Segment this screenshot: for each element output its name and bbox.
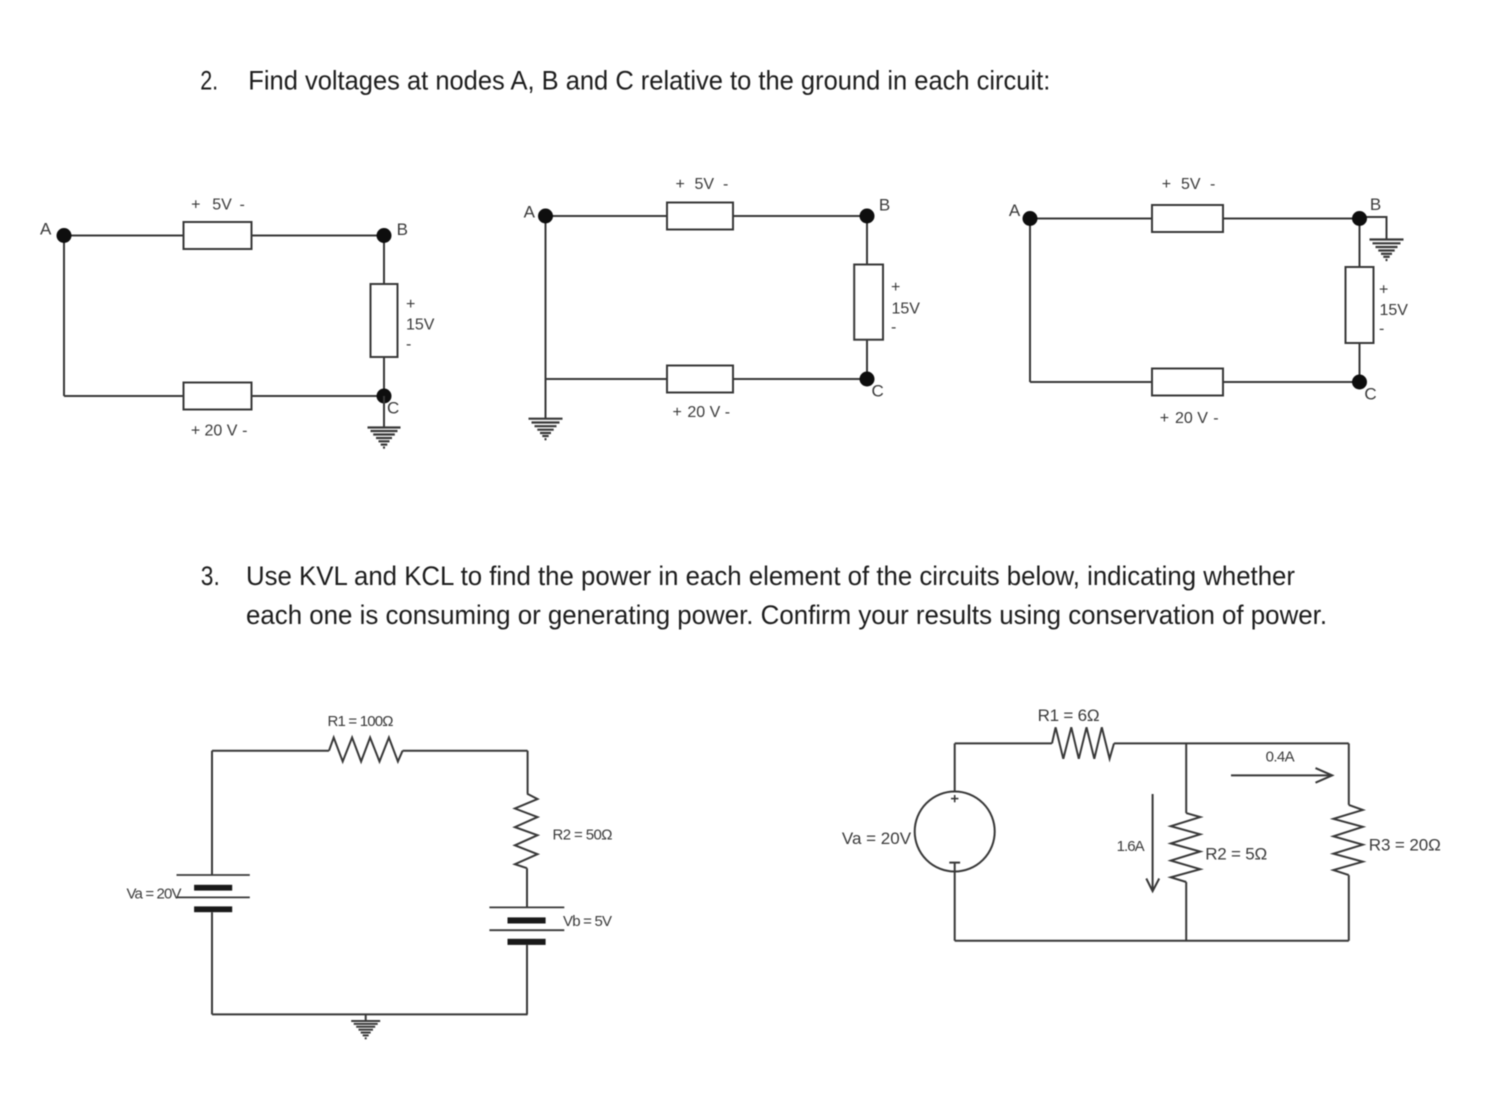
node B (circuit 3): [1352, 195, 1381, 226]
svg-text:-: -: [1210, 176, 1215, 193]
wire left lower (circuit 4): [211, 912, 213, 1014]
problem 2 heading: [200, 65, 1050, 95]
node B (circuit 1): [377, 220, 408, 243]
node A (circuit 1): [40, 220, 72, 244]
svg-text:+: +: [676, 176, 685, 193]
svg-text:R2 = 50Ω: R2 = 50Ω: [553, 827, 613, 844]
svg-text:15V: 15V: [892, 301, 921, 318]
svg-text:Find voltages at nodes A, B an: Find voltages at nodes A, B and C relati…: [248, 65, 1050, 95]
svg-text:15V: 15V: [1380, 302, 1409, 319]
svg-text:A: A: [524, 202, 536, 221]
svg-text:A: A: [1009, 201, 1021, 220]
label + 20 V - (circuit 3): [1160, 410, 1219, 427]
svg-text:+: +: [191, 197, 200, 214]
svg-text:20 V: 20 V: [1175, 410, 1208, 427]
label + 5V - (circuit 3): [1162, 176, 1216, 193]
svg-text:+: +: [1160, 410, 1169, 427]
wire right branch upper (circuit 5): [1348, 743, 1350, 805]
node C (circuit 2): [860, 372, 884, 401]
wire A down left side (circuit 3): [1029, 219, 1031, 383]
element box 15V (circuit 1): [371, 284, 398, 357]
svg-text:Va = 20V: Va = 20V: [127, 886, 182, 903]
svg-text:R1 = 100Ω: R1 = 100Ω: [328, 713, 394, 730]
svg-text:+: +: [891, 279, 900, 296]
svg-text:20 V: 20 V: [687, 404, 720, 421]
resistor R1 (circuit 4): [329, 738, 403, 762]
wire source top (circuit 5): [954, 743, 956, 791]
element box 15V (circuit 2): [854, 265, 883, 340]
element box 20V (circuit 3): [1152, 369, 1223, 396]
svg-text:2.: 2.: [200, 65, 218, 95]
resistor R3 (circuit 5): [1333, 805, 1362, 875]
element box 20V (circuit 1): [184, 383, 252, 410]
svg-text:-: -: [891, 319, 896, 336]
svg-text:5V: 5V: [1181, 176, 1201, 193]
ground (circuit 1): [368, 428, 401, 448]
svg-text:C: C: [872, 381, 884, 400]
svg-text:B: B: [1370, 195, 1381, 214]
svg-text:B: B: [397, 220, 408, 239]
wire B to 15V element (circuit 3): [1359, 219, 1361, 268]
node A (circuit 2): [524, 202, 553, 223]
element box 5V (circuit 1): [184, 222, 252, 249]
ground (circuit 4): [351, 1014, 380, 1038]
element box 5V (circuit 3): [1152, 205, 1223, 232]
label Va = 20V (circuit 4): [127, 886, 182, 903]
resistor R1 (circuit 5): [1052, 727, 1114, 759]
wire top right (circuit 5): [1114, 742, 1349, 744]
wire 15V element to C (circuit 1): [383, 357, 385, 396]
label 1.6A (circuit 5): [1117, 838, 1145, 855]
svg-text:-: -: [406, 336, 411, 353]
wire middle branch upper (circuit 5): [1185, 743, 1187, 813]
wire bottom (circuit 1): [64, 395, 384, 397]
battery Vb (circuit 4): [489, 907, 564, 944]
wire right lower (circuit 4): [526, 945, 528, 1015]
node B (circuit 2): [860, 195, 891, 223]
svg-text:1.6A: 1.6A: [1117, 838, 1145, 855]
wire top left (circuit 4): [212, 750, 329, 752]
label Va = 20V (circuit 5): [842, 829, 912, 848]
label + 5V - (circuit 2): [676, 176, 729, 193]
wire top left (circuit 5): [955, 742, 1052, 744]
current arrow 1.6A (circuit 5): [1146, 794, 1159, 891]
svg-text:5V: 5V: [695, 176, 715, 193]
wire bottom (circuit 2): [546, 378, 868, 380]
svg-text:+: +: [1379, 282, 1388, 299]
label + 5V - (circuit 1): [191, 197, 245, 214]
svg-text:R2 = 5Ω: R2 = 5Ω: [1205, 845, 1267, 864]
svg-text:-: -: [725, 404, 730, 421]
wire 15V element to C (circuit 2): [866, 339, 868, 379]
element box 5V (circuit 2): [667, 203, 733, 230]
svg-text:+: +: [406, 296, 415, 313]
voltage source Va (circuit 5): [915, 792, 995, 872]
svg-text:20 V: 20 V: [205, 423, 238, 440]
svg-text:+: +: [191, 423, 200, 440]
label R2 = 5 ohm (circuit 5): [1205, 845, 1267, 864]
label 15V polarity (circuit 2): [891, 279, 920, 336]
svg-text:0.4A: 0.4A: [1266, 748, 1295, 765]
svg-text:Va = 20V: Va = 20V: [842, 829, 912, 848]
label 0.4A (circuit 5): [1266, 748, 1295, 765]
label + 20 V - (circuit 1): [191, 423, 248, 440]
ground (circuit 2): [529, 419, 563, 440]
wire A-B top (circuit 3): [1030, 218, 1360, 220]
wire A-B top (circuit 1): [64, 235, 384, 237]
wire right upper (circuit 4): [527, 751, 529, 794]
element box 20V (circuit 2): [667, 366, 733, 393]
problem 3 heading: [201, 561, 1327, 630]
wire top right (circuit 4): [403, 750, 528, 752]
svg-text:Use KVL and KCL to find the po: Use KVL and KCL to find the power in eac…: [246, 561, 1295, 591]
svg-text:-: -: [240, 197, 245, 214]
ground (circuit 3): [1370, 240, 1404, 261]
label + 20 V - (circuit 2): [673, 404, 731, 421]
element box 15V (circuit 3): [1346, 267, 1374, 343]
svg-text:Vb = 5V: Vb = 5V: [563, 913, 612, 930]
wire A down left side (circuit 1): [63, 236, 65, 397]
wire B to 15V element (circuit 1): [383, 236, 385, 285]
svg-text:C: C: [1364, 384, 1376, 403]
svg-text:R3 = 20Ω: R3 = 20Ω: [1369, 835, 1441, 854]
svg-text:C: C: [387, 399, 399, 418]
svg-text:-: -: [242, 423, 247, 440]
wire A-B top (circuit 2): [546, 215, 868, 217]
node A (circuit 3): [1009, 201, 1038, 226]
node C (circuit 3): [1352, 375, 1377, 404]
label R2 = 50 ohm (circuit 4): [553, 827, 613, 844]
label 15V polarity (circuit 3): [1379, 282, 1408, 338]
svg-text:3.: 3.: [201, 561, 220, 591]
wire source bottom (circuit 5): [954, 863, 956, 941]
wire right middle (circuit 4): [526, 868, 528, 907]
label 15V polarity (circuit 1): [406, 296, 435, 353]
svg-text:-: -: [1379, 321, 1384, 338]
svg-text:5V: 5V: [212, 197, 232, 214]
wire bottom (circuit 4): [212, 1013, 528, 1015]
svg-text:each one is consuming or gener: each one is consuming or generating powe…: [246, 600, 1327, 630]
wire right branch lower (circuit 5): [1348, 875, 1350, 941]
current arrow 0.4A (circuit 5): [1231, 768, 1332, 783]
svg-text:+: +: [1162, 176, 1171, 193]
resistor R2 (circuit 5): [1171, 813, 1200, 882]
label R3 = 20 ohm (circuit 5): [1369, 835, 1441, 854]
wire middle branch lower (circuit 5): [1185, 882, 1187, 941]
svg-text:15V: 15V: [406, 317, 435, 334]
wire 15V element to C (circuit 3): [1359, 343, 1361, 382]
svg-text:+: +: [673, 404, 682, 421]
wire left upper (circuit 4): [211, 751, 213, 875]
svg-text:-: -: [1213, 410, 1218, 427]
svg-text:-: -: [723, 176, 728, 193]
wire B to ground (circuit 3): [1365, 217, 1387, 239]
svg-text:B: B: [879, 195, 890, 214]
label R1 = 100 ohm (circuit 4): [328, 713, 394, 730]
wire B to 15V element (circuit 2): [866, 216, 868, 266]
wire C to ground (circuit 1): [383, 396, 385, 428]
wire bottom (circuit 3): [1030, 381, 1360, 383]
svg-text:A: A: [40, 220, 52, 239]
node C (circuit 1): [377, 389, 400, 418]
battery Va (circuit 4): [177, 875, 250, 912]
svg-text:R1 = 6Ω: R1 = 6Ω: [1038, 706, 1100, 725]
wire bottom (circuit 5): [955, 940, 1349, 942]
wire A down to ground (circuit 2): [545, 216, 547, 419]
label R1 = 6 ohm (circuit 5): [1038, 706, 1100, 725]
label Vb = 5V (circuit 4): [563, 913, 612, 930]
resistor R2 (circuit 4): [515, 794, 538, 869]
